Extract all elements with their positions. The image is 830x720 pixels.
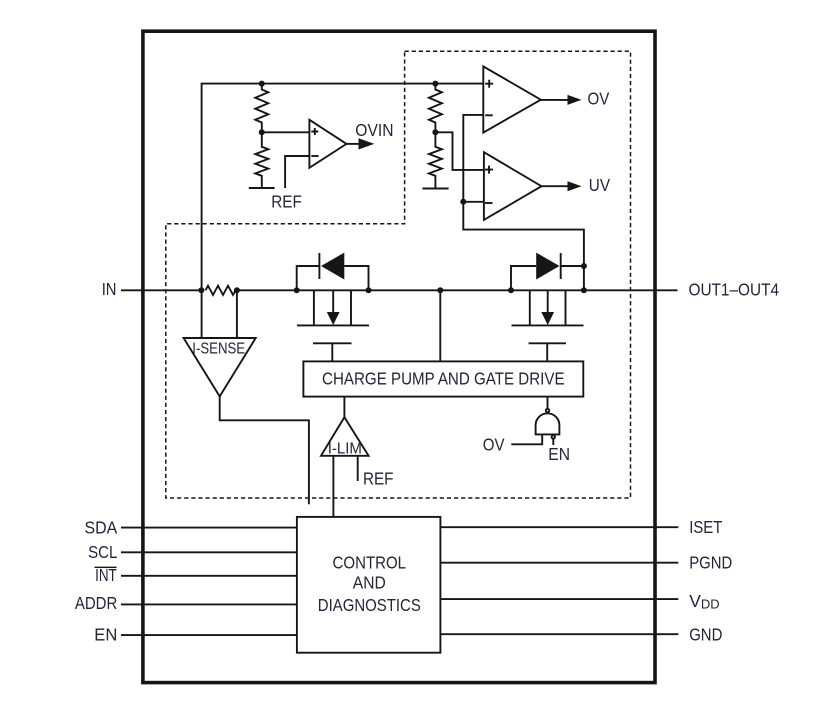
minus input mark (OVIN) [311, 155, 318, 157]
svg-text:SCL: SCL [88, 542, 117, 562]
wire IN lead [121, 289, 204, 291]
dashed internal block boundary [166, 51, 631, 498]
plus input mark (UV) [485, 166, 493, 174]
wire main line R-sense to OUT [236, 289, 678, 291]
svg-text:IN: IN [102, 279, 117, 299]
block charge pump and gate drive [303, 361, 583, 396]
minus input mark (UV) [485, 202, 493, 204]
svg-text:DIAGNOSTICS: DIAGNOSTICS [318, 595, 421, 615]
wire Q2 gate to charge pump [546, 343, 548, 361]
transistor Q2 body diode branch [511, 266, 584, 290]
svg-text:ISET: ISET [689, 517, 722, 537]
wire SDA [121, 527, 297, 529]
gate U-enable NAND body [536, 413, 560, 434]
wire EN stub [552, 439, 554, 445]
resistor R2 (lower, OVIN divider) [255, 132, 268, 188]
svg-text:AND: AND [353, 573, 386, 593]
op-amp UV comparator [484, 152, 542, 220]
gate output bubble [546, 409, 549, 412]
wire GND [440, 633, 678, 635]
INT overline [95, 566, 117, 568]
op-amp OV comparator [483, 66, 541, 132]
svg-text:CHARGE PUMP AND GATE DRIVE: CHARGE PUMP AND GATE DRIVE [322, 369, 565, 389]
wire PGND [440, 562, 678, 564]
svg-text:SDA: SDA [85, 518, 118, 538]
node Q1 right dot [366, 287, 372, 293]
plus input mark (OV) [485, 80, 493, 88]
resistor R-sense [206, 286, 236, 295]
wire OVIN output with arrow [347, 143, 360, 145]
plus input mark (OVIN) [311, 128, 318, 135]
resistor R3 (upper, OV/UV divider) [429, 84, 442, 133]
node OV/UV divider top dot [432, 81, 438, 87]
node Q2 right dot [581, 287, 587, 293]
svg-text:PGND: PGND [689, 552, 732, 572]
transistor Q2 source arrow [547, 290, 549, 313]
arrow UV [568, 181, 582, 191]
arrow OV [568, 95, 582, 105]
wire REF stub (I-LIM) [357, 456, 359, 481]
wire ISET [440, 526, 678, 528]
node OV/UV divider midpoint [432, 129, 438, 135]
arrow OVIN [359, 138, 375, 149]
svg-text:OV: OV [483, 435, 505, 455]
svg-text:VDD: VDD [689, 591, 719, 612]
wire center node to charge pump [439, 290, 441, 361]
wire I-LIM input from control block [332, 456, 334, 517]
diode D2 cathode bar [560, 253, 562, 279]
wire UV output with arrow [542, 185, 569, 187]
wire OV input to gate [511, 434, 542, 444]
wire OV output with arrow [541, 99, 569, 101]
node Q2 left dot [508, 287, 514, 293]
ground (OVIN divider) [249, 187, 275, 189]
svg-text:I-LIM: I-LIM [328, 441, 362, 458]
svg-text:OVIN: OVIN [355, 120, 393, 140]
svg-text:REF: REF [363, 468, 394, 488]
wire I-SENSE output to control block [220, 396, 309, 504]
wire left I-SENSE input stub [201, 290, 203, 338]
wire EN [121, 634, 297, 636]
wire INT [121, 575, 297, 577]
transistor Q1 source arrow [332, 290, 334, 313]
node IN dot [198, 287, 204, 293]
node after sense resistor [234, 287, 240, 293]
wire REF to OVIN - input [285, 156, 310, 188]
wire IN node up to top divider rail [202, 84, 484, 291]
op-amp OVIN comparator [309, 120, 346, 168]
node Q2 diode junction dot [581, 263, 587, 269]
wire divider mid to UV + input [435, 132, 484, 170]
transistor Q1 body diode branch [297, 266, 369, 290]
gate EN input bubble [552, 435, 555, 438]
arrow Q2 body [541, 312, 554, 325]
svg-text:OV: OV [588, 89, 610, 109]
op-amp I-LIM [321, 417, 369, 456]
node UV - junction dot [460, 199, 466, 205]
wire I-LIM output to charge pump [343, 397, 345, 418]
node top-left divider top dot [259, 81, 265, 87]
svg-text:OUT1–OUT4: OUT1–OUT4 [689, 280, 780, 300]
wire VDD [440, 598, 678, 600]
node OVIN divider midpoint [259, 129, 265, 135]
svg-text:EN: EN [548, 444, 570, 464]
transistor Q2 gate bar [529, 342, 566, 344]
ground (OV/UV divider) [422, 188, 448, 190]
op-amp I-SENSE [184, 338, 256, 396]
wire divider mid to OVIN + input [262, 131, 310, 133]
wire comparator feedback from OUT node [463, 115, 584, 290]
resistor R1 (upper, OVIN divider) [255, 84, 268, 133]
IC outer boundary [143, 31, 655, 682]
svg-text:EN: EN [94, 624, 117, 644]
svg-text:ADDR: ADDR [75, 593, 117, 613]
svg-text:UV: UV [589, 175, 610, 195]
diode D1 [321, 253, 344, 280]
diode D2 [536, 253, 559, 280]
block control and diagnostics [297, 517, 441, 653]
wire SCL [121, 551, 297, 553]
transistor Q1 channel [297, 290, 369, 325]
node center dot [437, 287, 443, 293]
wire ADDR [121, 603, 297, 605]
wire Q1 gate to charge pump [331, 343, 333, 361]
svg-text:I-SENSE: I-SENSE [192, 340, 245, 357]
minus input mark (OV) [485, 114, 493, 116]
svg-text:REF: REF [271, 192, 302, 212]
svg-text:GND: GND [689, 624, 722, 644]
wire right I-SENSE input stub [236, 290, 238, 338]
node Q1 left dot [294, 287, 300, 293]
transistor Q2 channel [512, 290, 584, 325]
arrow Q1 body [327, 312, 340, 325]
transistor Q1 gate bar [313, 342, 352, 344]
wire UV - input [463, 201, 484, 203]
resistor R4 (lower, OV/UV divider) [429, 132, 442, 188]
wire gate output to charge pump [547, 397, 549, 409]
diode D1 cathode bar [318, 253, 320, 279]
svg-text:CONTROL: CONTROL [333, 552, 407, 572]
